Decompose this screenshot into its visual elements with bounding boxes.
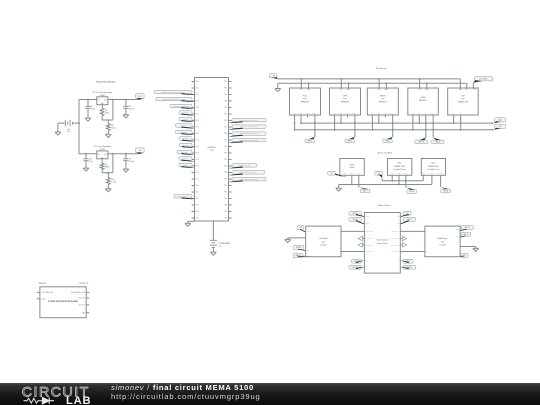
wire servo ground bus [339,184,432,186]
svg-text:3.3 V: 3.3 V [465,89,468,91]
wire Front TOF SENSOR GND to bus [308,83,310,88]
svg-text:SENSOR: SENSOR [341,102,350,104]
net flag L12 GPIO 13 [179,163,192,166]
flag servo GPIO [360,189,369,193]
svg-text:IN: IN [98,100,99,102]
ground C4 [123,169,129,172]
node mems1 GND crossing [398,180,400,182]
wedge mems2 GPIO [441,187,449,189]
flag right motor enc B [461,232,471,236]
node LEFT TOF SENSOR SDA junction [340,122,342,124]
MCU bottom pin stub [212,221,214,225]
wire battery left [58,122,65,124]
wire R1 to R2 [107,120,109,124]
flag LEFT TOF SENSOR GPIO [345,139,354,143]
svg-text:INPUTS: INPUTS [39,283,47,285]
svg-text:P2.1: P2.1 [225,140,228,142]
logo diode [42,398,54,404]
port arrow MD left B [363,244,365,246]
wedge net flag R4 [229,141,243,143]
wire mems1 signal down [405,175,407,187]
wire Front TOF SENSOR VCC to bus [300,79,302,88]
flag MD GPIO 33 lt [349,217,361,221]
node Front TOF SENSOR XSHUT cross2 [314,129,316,131]
wedge net flag L1 [182,93,195,95]
svg-text:Dual Channel: Dual Channel [377,240,389,242]
svg-text:P1.0: P1.0 [196,133,199,135]
wire left motor gnd [288,237,306,239]
flag MD GPIO 14 rb [403,265,416,269]
svg-text:GND: GND [347,89,350,91]
net flag R1 LS/Strip.Encoder [232,118,266,121]
net flag L7 UART0 RX [176,130,193,133]
wire power bank to ground [212,248,214,253]
node junction C2 tap [125,99,127,101]
wire mems2 GND down [431,175,433,184]
net flag R2 LS/Strip.Encoder [232,125,266,128]
net flag L10 PWM Out1 [177,150,192,153]
pin stub board out4 [86,312,89,314]
svg-text:R10: R10 [111,179,114,181]
IC block RIGHT TOF SENSOR [367,88,398,115]
flag Front TOF SENSOR GPIO [305,139,314,143]
svg-text:P1.1: P1.1 [196,192,199,194]
wire IR bus GND drop [277,83,279,88]
svg-text:5 V: 5 V [331,173,333,175]
svg-text:GYRO: GYRO [420,97,426,99]
svg-text:Sig In: Sig In [357,173,360,175]
node GYRO BNO055 RST cross2 [432,129,434,131]
wedge LEFT TOF SENSOR GPIO flag [349,137,355,139]
svg-text:P2.0: P2.0 [225,185,228,187]
resistor R3 [101,159,103,163]
svg-text:3.3 V: 3.3 V [138,96,142,98]
wedge net flag L6 [182,127,195,129]
svg-text:Sig In: Sig In [404,173,407,175]
pin stub RIGHT TOF SENSOR GPIO1 [384,115,386,118]
wire rail vertical [78,100,80,154]
port arrow MD right A [400,238,402,240]
node TOF ImP MEMS ICM pinB crossing [460,122,462,124]
svg-text:XSHUT: XSHUT [312,113,316,115]
svg-text:100 µF: 100 µF [129,161,134,163]
svg-text:GPIO 4: GPIO 4 [348,141,353,143]
node Front TOF SENSOR SCL crossing [294,122,296,124]
capacitor C3 [85,154,87,159]
svg-text:XSHUT: XSHUT [352,113,356,115]
svg-text:P1.2: P1.2 [196,146,199,148]
IC block power distribution board [40,287,86,318]
wire RIGHT TOF SENSOR VCC to bus [378,79,380,88]
wire GYRO BNO055 SDA to bus [418,115,420,123]
wire right motor out1 [400,230,425,232]
svg-text:GPIO1: GPIO1 [346,113,350,115]
wire GYRO BNO055 GND to bus [426,83,428,88]
wire Front TOF SENSOR XSHUT down [314,115,316,137]
node junction rail battery [78,122,80,124]
wire Front TOF SENSOR SCL to bus [294,115,296,130]
wire TOF ImP MEMS ICM pin2 to bus2 [466,83,468,88]
svg-text:VCC: VCC [340,89,343,91]
wedge net flag L4 [182,114,195,116]
flag SDA right [495,118,506,122]
wedge left motor 3.3V [300,229,306,232]
svg-text:R6: R6 [105,164,107,166]
net flag L2 LightSensor.Forwar [156,97,192,100]
wedge MD GPIO 5 rt [400,220,409,224]
svg-text:Servo and Misc: Servo and Misc [377,151,393,154]
svg-text:GND: GND [431,173,434,175]
svg-text:P1.5: P1.5 [196,166,199,168]
node mems1 PWR junction [391,180,393,182]
svg-text:P1.2: P1.2 [196,198,199,200]
node GYRO BNO055 INT cross1 [425,122,427,124]
ground right motor [473,248,479,251]
wire U2 adj loop [112,154,114,173]
svg-text:P1.3: P1.3 [196,153,199,155]
node RIGHT TOF SENSOR SCL crossing [372,122,374,124]
svg-text:+7.4 V (LiPo) + LiPo: +7.4 V (LiPo) + LiPo [41,292,53,294]
wedge flag IR left [272,77,278,79]
wire TOF ImP MEMS ICM pin1 to bus1 [459,79,461,88]
svg-text:P2.1: P2.1 [225,192,228,194]
footer bar [0,383,540,405]
wedge net flag L2 [182,100,195,102]
wedge mems1 5V [378,174,382,177]
wedge flag SDA [494,121,501,123]
net flag L5 I2C1 SDA [179,117,192,120]
wire I2C SDA bus [301,122,494,124]
wedge flag SCL [494,128,501,130]
wire LEFT TOF SENSOR VCC to bus [340,79,342,88]
svg-text:GND: GND [385,89,388,91]
wedge net flag L9 [182,146,195,148]
svg-text:Servo: Servo [350,163,355,166]
svg-text:GPIO 13: GPIO 13 [183,165,188,167]
wire mems1 GND down [398,175,400,184]
svg-text:P2.2: P2.2 [225,146,228,148]
svg-text:http://circuitlab.com/ctuuvmgr: http://circuitlab.com/ctuuvmgrp39ug [111,392,261,401]
svg-text:P1.0: P1.0 [196,81,199,83]
IC block MEMS provided 1 [388,159,412,176]
svg-text:POWER DISTRIBUTION BOARD: POWER DISTRIBUTION BOARD [48,300,79,303]
svg-text:OUT: OUT [104,100,107,102]
IC block GYRO BNO055 [408,88,439,115]
svg-text:10 µF: 10 µF [91,108,95,110]
svg-text:P2.5: P2.5 [225,218,228,220]
wire mems2 signal down [440,175,442,187]
svg-text:VCC: VCC [473,89,476,91]
IC block TOF ImP MEMS ICM [448,88,479,115]
wedge servo 5V [335,173,345,177]
wedge MD GPIO 26 lb [356,267,365,269]
wedge MD 5 V rt [400,214,409,217]
net flag R5 Lightbars.En.mdf [232,164,257,167]
node mems1 GND junction [398,184,400,186]
svg-text:3.3 V: 3.3 V [299,227,302,229]
wire battery to rail [73,122,80,124]
svg-text:3.3 V Linear Regulator: 3.3 V Linear Regulator [92,91,112,94]
svg-text:GND: GND [459,89,462,91]
svg-text:SCL: SCL [293,113,296,115]
flag MD 5 V rt [403,211,411,215]
svg-text:VCC: VCC [397,216,400,218]
flag GYRO BNO055 GPIO a [415,140,428,144]
svg-text:M+: M+ [426,231,428,233]
svg-text:SCL: SCL [333,113,336,115]
svg-text:VCC: VCC [378,89,381,91]
svg-text:GPIO 36: GPIO 36 [465,227,470,229]
node GYRO BNO055 INT cross2 [425,129,427,131]
node Front TOF SENSOR GND junction [308,82,310,84]
wire left motor out2 [341,251,364,253]
svg-text:Front: Front [303,94,308,97]
node GYRO BNO055 RST cross1 [432,122,434,124]
battery BAT1 LiPo [64,120,66,127]
node LEFT TOF SENSOR SCL crossing [334,122,336,124]
node junction R1/R2 [107,119,109,121]
svg-text:P1.4: P1.4 [196,107,199,109]
svg-text:10 µF: 10 µF [89,161,93,163]
wire servo GND down [351,175,353,184]
svg-text:P1.4: P1.4 [196,211,199,213]
node junction C4 tap [125,153,127,155]
svg-text:P1.2: P1.2 [196,94,199,96]
svg-text:GPIO 34: GPIO 34 [296,247,301,249]
wedge net flag L11 [182,160,195,162]
wedge flag 3.3V [137,98,143,100]
svg-text:R1: R1 [105,110,107,112]
svg-text:C1: C1 [91,106,93,108]
wedge net flag R5 [229,166,243,168]
wire GYRO BNO055 VCC to bus [419,79,421,88]
pin stub board in2 [37,298,40,300]
svg-text:PWR: PWR [391,173,394,175]
wedge servo GPIO [359,187,369,189]
svg-text:P1.5: P1.5 [196,218,199,220]
node LEFT TOF SENSOR XSHUT cross2 [354,129,356,131]
svg-text:GPIO 4: GPIO 4 [385,141,390,143]
node LEFT TOF SENSOR GND junction [348,82,350,84]
wedge left motor enc A [298,249,306,251]
node GYRO BNO055 SCL crossing [412,122,414,124]
wedge net flag L7 [182,133,195,135]
MCU U3 MSP430 body [195,78,229,222]
svg-text:P2.3: P2.3 [225,101,228,103]
wedge RIGHT TOF SENSOR GPIO flag [387,137,393,139]
net flag R4 Lightbars.Encode [232,138,266,141]
port arrow MD left A [363,238,365,240]
node mems1 signal crossing b [405,184,407,186]
wire IR top bus GND [278,82,467,84]
wire right motor gnd [460,246,476,248]
svg-text:PWR: PWR [344,173,347,175]
svg-text:SENSOR: SENSOR [301,102,310,104]
svg-text:OUTPUTS: OUTPUTS [79,283,89,285]
node LEFT TOF SENSOR SCL junction [334,129,336,131]
flag MD GPIO 32 lt [349,211,361,215]
wedge net flag R2 [229,128,243,130]
svg-text:P1.0: P1.0 [196,185,199,187]
svg-text:GPIO 11: GPIO 11 [443,191,448,193]
node GYRO BNO055 GND junction [426,82,428,84]
net flag L8 SPI MOSI [180,137,193,140]
capacitor C2 [125,100,127,107]
ground C2 [123,115,129,118]
svg-text:MEMS ICM: MEMS ICM [458,102,468,104]
svg-text:Power Distribution: Power Distribution [96,81,116,84]
node Front TOF SENSOR VCC junction [300,78,302,80]
wire IR top bus VCC [278,78,461,80]
node TOF ImP MEMS ICM pinB junction [460,129,462,131]
net flag L1 LightSensor.Back.L [154,90,192,93]
svg-text:1.6 kΩ: 1.6 kΩ [111,181,116,183]
ground IR bus [275,89,281,92]
svg-text:P2.4: P2.4 [225,159,228,161]
svg-text:SCL: SCL [412,113,415,115]
svg-text:P2.0: P2.0 [225,81,228,83]
flag left motor 3.3V [297,226,304,230]
pin stub board out1 [86,291,89,293]
node LEFT TOF SENSOR VCC junction [340,78,342,80]
svg-text:P2.4: P2.4 [225,211,228,213]
wedge net flag L13 [182,197,195,199]
svg-text:GPIO 12: GPIO 12 [183,158,188,160]
svg-text:5 V: 5 V [139,150,141,152]
svg-text:GPIO1: GPIO1 [306,113,310,115]
wire RIGHT TOF SENSOR GND to bus [385,83,387,88]
svg-text:encoder: encoder [439,244,446,247]
svg-text:P2.6: P2.6 [225,172,228,174]
svg-text:GPIO 4: GPIO 4 [308,141,313,143]
wedge MD GPIO 14 rb [400,267,409,269]
svg-text:MEMS 5100: MEMS 5100 [428,166,438,168]
node junction R3/R4 [107,172,109,174]
svg-text:L2 EN: L2 EN [365,223,368,225]
svg-text:GND: GND [307,89,310,91]
svg-text:with: with [441,240,444,243]
schematic layer [37,67,506,318]
wire TOF ImP MEMS ICM pinB to bus2 [460,115,462,130]
wire LEFT TOF SENSOR SDA to bus [340,115,342,123]
wedge net flag L10 [182,153,195,155]
wire I2C SCL bus [295,129,494,131]
ground power bank [211,252,217,255]
svg-text:GND: GND [398,173,401,175]
wire R3 to R4 [107,173,109,178]
battery BAT2 power bank [210,239,217,241]
ground MCU [185,223,191,226]
svg-text:GPIO1: GPIO1 [383,113,387,115]
svg-text:LAB: LAB [66,395,91,405]
wedge net flag L8 [182,140,195,142]
flag right motor 5V [461,253,468,257]
wedge GYRO BNO055 GPIO b [433,138,441,141]
IC block Servo SG90 [340,159,365,176]
wire MCU to power bank [212,225,214,241]
node GYRO BNO055 SDA junction [418,122,420,124]
resistor R2 [106,124,110,131]
IC block left motor [306,226,341,257]
flag left motor enc A [293,246,304,250]
wire GYRO BNO055 RST down [432,115,434,138]
svg-text:P1.6: P1.6 [196,172,199,174]
svg-text:P1.4: P1.4 [196,159,199,161]
wedge MD GPIO 25 lb [356,260,365,263]
wedge left motor enc B [298,256,306,257]
svg-text:P1.1: P1.1 [196,140,199,142]
svg-text:P2.3: P2.3 [225,205,228,207]
wedge net flag R6 [229,173,243,175]
svg-text:XSHUT: XSHUT [390,113,394,115]
wedge GYRO BNO055 GPIO a [420,138,426,141]
wedge net flag L3 [182,107,195,109]
flag servo 5V [328,171,336,175]
net flag L6 UART0 TX [176,124,193,127]
flag RIGHT TOF SENSOR GPIO [383,139,392,143]
svg-text:encoder: encoder [320,244,327,247]
net flag L4 I2C1 SCL [179,111,192,114]
svg-text:GPIO 9: GPIO 9 [363,191,368,193]
svg-text:3.3 V In: 3.3 V In [307,231,311,233]
resistor R4 [106,178,110,185]
svg-text:P2.7: P2.7 [225,127,228,129]
wedge mems1 GPIO [406,187,415,190]
wedge net flag L5 [182,120,195,122]
wire servo signal down [358,175,360,187]
wire GYRO BNO055 INT down [425,115,427,138]
svg-text:L1 EN: L1 EN [365,216,368,218]
wire LEFT TOF SENSOR XSHUT down [354,115,356,137]
svg-text:SCL 1: SCL 1 [498,126,502,128]
port arrow MD right B [400,244,402,246]
flag GYRO BNO055 GPIO b [432,140,445,144]
IC block MEMS provided 2 [421,159,445,176]
wire left motor out1 [341,230,364,232]
svg-text:+ GND: + GND [41,298,45,300]
svg-text:P2.5: P2.5 [225,114,228,116]
wedge flag IR right [473,80,482,83]
wire RIGHT TOF SENSOR SCL to bus [371,115,373,130]
wedge net flag R1 [229,121,243,123]
node RIGHT TOF SENSOR XSHUT cross1 [392,122,394,124]
node RIGHT TOF SENSOR XSHUT cross2 [392,129,394,131]
svg-text:GPIO 39: GPIO 39 [463,234,468,236]
ground R4 [105,189,111,192]
svg-text:100 µF: 100 µF [129,108,134,110]
node TOF ImP MEMS ICM pinA junction [453,122,455,124]
ground C1 [85,118,91,121]
svg-text:GPIO 10: GPIO 10 [409,191,414,193]
wedge net flag L12 [182,166,195,168]
svg-text:P1.3: P1.3 [196,101,199,103]
svg-text:RIGHT: RIGHT [380,95,387,97]
node RIGHT TOF SENSOR VCC junction [378,78,380,80]
svg-text:P2.2: P2.2 [225,198,228,200]
node servo GND junction [351,184,353,186]
svg-text:INT: INT [425,113,427,115]
svg-text:P2.2: P2.2 [225,94,228,96]
svg-text:3.3 V: 3.3 V [272,75,275,77]
wedge right motor enc B [460,236,465,238]
flag 3.3V net [136,94,144,99]
flag 5V net [136,148,144,153]
wire servo gnd drop [338,185,340,189]
svg-text:5 V Linear Regulator: 5 V Linear Regulator [93,145,112,148]
svg-text:simonev / final circuit MEMA 5: simonev / final circuit MEMA 5100 [111,383,254,392]
wire U1 adj loop [112,100,114,121]
svg-text:SCL: SCL [453,113,456,115]
